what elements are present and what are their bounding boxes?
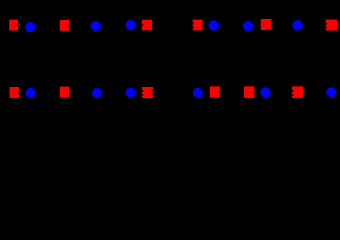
particle A1 red square xyxy=(9,20,20,31)
particle B3 red square xyxy=(60,87,69,98)
particle A5 blue circle xyxy=(125,20,135,30)
particle B12 blue circle xyxy=(326,87,336,97)
particle B5 blue circle xyxy=(126,88,136,98)
particle A3 red square xyxy=(60,20,70,31)
particle B6 red square xyxy=(142,87,153,98)
particle A11 blue circle xyxy=(292,20,303,31)
particle B2 blue circle xyxy=(25,88,35,98)
particle B4 blue circle xyxy=(92,88,102,98)
particle B10 blue circle xyxy=(260,87,271,98)
particle A7 red square xyxy=(193,20,203,31)
particle B1 red square xyxy=(10,87,19,98)
particle A4 blue circle xyxy=(90,21,101,32)
particle A6 red square xyxy=(142,20,152,30)
particle A9 blue circle xyxy=(243,21,253,31)
particle B7 blue circle xyxy=(193,88,203,98)
particle A12 red square xyxy=(326,20,337,31)
particle B9 red square xyxy=(244,86,254,98)
particle A8 blue circle xyxy=(208,20,219,31)
particle B8 red square xyxy=(210,86,220,97)
particle B11 red square xyxy=(292,86,303,98)
particle A10 red square xyxy=(261,19,272,30)
particle A2 blue circle xyxy=(25,22,35,32)
